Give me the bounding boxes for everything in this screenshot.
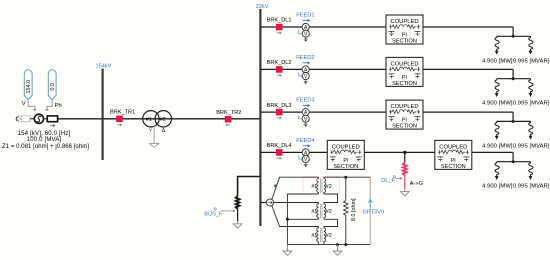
svg-text:BRK_DL4: BRK_DL4 <box>267 143 292 149</box>
svg-text:BRK_DL2: BRK_DL2 <box>267 60 292 66</box>
wire feeder 1 <box>261 26 386 28</box>
wire T3 primary bottom stub <box>318 243 320 244</box>
ground source left <box>16 116 21 122</box>
coupled pi section F1 <box>386 15 423 45</box>
meter channel V capsule <box>24 70 32 100</box>
resistor Rgpt wire bottom <box>345 216 347 245</box>
bus 22kV <box>259 9 261 226</box>
svg-text:BRK_DL1: BRK_DL1 <box>267 18 292 24</box>
svg-text:FEED4: FEED4 <box>296 138 314 144</box>
svg-text:Z1 = 0.081 [ohm] + j0.866 [ohm: Z1 = 0.081 [ohm] + j0.866 [ohm] <box>2 144 89 150</box>
svg-text:FEED1: FEED1 <box>296 12 314 18</box>
source ES1 circle <box>34 114 43 123</box>
breaker BRK_TR1 <box>116 116 123 123</box>
svg-text:FEED2: FEED2 <box>296 55 314 61</box>
ground bus fault <box>233 221 242 228</box>
signal arrow FEED2 <box>303 61 311 64</box>
wire T2 primary bottom <box>287 218 318 220</box>
signal wire DL_F <box>395 177 401 179</box>
wire delta link 1 <box>324 194 338 203</box>
wire phase C <box>272 206 319 227</box>
load 4 <box>482 152 550 189</box>
breakout node circle <box>266 199 273 206</box>
wire feeder 3 to load <box>423 111 513 113</box>
svg-text:A->G: A->G <box>410 181 423 187</box>
meter channel Ph capsule <box>48 70 56 100</box>
wire feeder 4 to load <box>471 151 513 153</box>
wire bottom rail <box>287 244 370 246</box>
svg-text:Y: Y <box>149 128 152 133</box>
arrow P flow <box>50 124 55 126</box>
wire phase A <box>272 177 319 199</box>
coupled pi section F2 <box>386 57 423 87</box>
svg-text:BRK_DL3: BRK_DL3 <box>267 103 292 109</box>
resistor Rgpt 8 ohm <box>344 200 348 216</box>
wire fault drop <box>404 152 406 162</box>
ground DL fault <box>400 189 409 196</box>
wire phase B <box>274 202 319 204</box>
svg-text:154kV: 154kV <box>96 64 112 70</box>
svg-text:8.0 [ohm]: 8.0 [ohm] <box>351 198 357 221</box>
node junction DL fault <box>403 151 406 154</box>
node rail left <box>336 243 339 246</box>
svg-text:154.0: 154.0 <box>26 80 32 94</box>
source aux dashed box <box>21 116 30 122</box>
multimeter FEED1 <box>299 23 310 41</box>
coupled pi section F4A <box>327 140 364 170</box>
ground wye <box>283 245 292 256</box>
fault BUS_F element <box>236 196 240 209</box>
signal arrow GPT3V0 <box>368 199 372 207</box>
svg-text:FEED3: FEED3 <box>296 98 314 104</box>
wire feeder 2 <box>261 68 386 70</box>
load 2 <box>482 69 550 106</box>
wire breakout stub <box>261 202 266 204</box>
signal hook V <box>28 100 36 110</box>
transformer GPT T1 <box>311 177 332 194</box>
wire: source circle to impedance <box>44 118 48 120</box>
wire feeder 3 <box>261 111 386 113</box>
wire: source to 22kV bus main line <box>58 118 261 120</box>
multimeter FEED3 <box>299 109 310 127</box>
wire feeder 4 mid <box>364 151 435 153</box>
svg-text:V: V <box>22 101 26 107</box>
signal arrow FEED1 <box>303 19 311 22</box>
transformer GPT T3 <box>311 227 332 244</box>
wire T1 secondary top <box>324 176 346 178</box>
load 1 <box>482 27 550 64</box>
svg-text:BRK_TR2: BRK_TR2 <box>216 110 241 116</box>
transformer T1 main <box>143 111 159 127</box>
selection box T1 <box>303 176 339 194</box>
node wye junction <box>286 218 289 221</box>
wire T3 secondary bottom <box>323 243 325 244</box>
svg-text:Ph: Ph <box>55 103 62 109</box>
signal hook Ph <box>46 100 53 110</box>
transformer GPT T2 <box>311 203 332 220</box>
wire wye neutral <box>286 194 288 245</box>
svg-text:DL_F: DL_F <box>381 178 395 184</box>
coupled pi section F3 <box>386 100 423 130</box>
wire feeder 2 to load <box>423 68 513 70</box>
wire delta link 2 <box>324 219 338 226</box>
wire T1 primary bottom <box>287 193 318 195</box>
breaker BRK_DL4 <box>276 149 283 156</box>
load 3 <box>482 112 550 149</box>
signal arrow FEED4 <box>303 144 311 147</box>
node marker blue <box>274 184 277 187</box>
svg-text:#2: #2 <box>160 117 166 123</box>
wire bus fault stub <box>238 177 260 197</box>
svg-text:0.0: 0.0 <box>50 83 56 91</box>
fault DL_F element <box>403 163 407 176</box>
transformer neutral ground <box>153 126 155 143</box>
resistor Rgpt wire top <box>345 177 347 200</box>
wire feeder 1 to load <box>423 26 513 28</box>
signal arrow FEED3 <box>303 104 311 107</box>
impedance Z1 rect <box>47 116 57 122</box>
coupled pi section F4B <box>435 140 472 170</box>
breaker BRK_TR2 <box>225 116 232 123</box>
multimeter FEED2 <box>299 66 310 84</box>
node rail right <box>344 243 347 246</box>
svg-text:100.0 [MVA]: 100.0 [MVA] <box>27 137 62 143</box>
wire measure top <box>346 176 370 178</box>
svg-text:BRK_TR1: BRK_TR1 <box>110 110 135 116</box>
ground delta <box>333 245 342 256</box>
breaker BRK_DL2 <box>276 66 283 73</box>
svg-text:GPT3V0: GPT3V0 <box>363 210 384 216</box>
signal wire BUS_F <box>222 210 235 212</box>
bus 154kV <box>101 69 103 161</box>
svg-text:#1: #1 <box>146 117 152 123</box>
wire feeder 4 <box>261 151 327 153</box>
wire: dashed box to source circle <box>30 118 34 120</box>
node secondary top <box>344 176 347 179</box>
breaker BRK_DL3 <box>276 109 283 116</box>
multimeter FEED4 <box>299 149 310 167</box>
breaker BRK_DL1 <box>276 24 283 31</box>
svg-text:22kV: 22kV <box>256 4 269 10</box>
svg-text:BUS_F: BUS_F <box>204 212 223 218</box>
